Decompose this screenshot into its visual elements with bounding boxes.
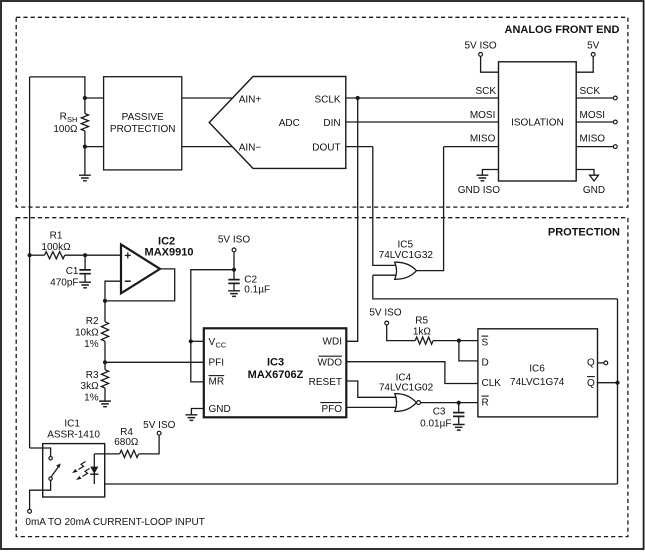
svg-text:74LVC1G32: 74LVC1G32 — [379, 250, 434, 261]
svg-text:PASSIVE: PASSIVE — [122, 112, 164, 123]
svg-text:10kΩ: 10kΩ — [75, 328, 99, 339]
svg-text:IC1: IC1 — [64, 419, 80, 430]
svg-text:C1: C1 — [66, 266, 79, 277]
svg-text:C3: C3 — [433, 406, 446, 417]
svg-text:CLK: CLK — [482, 378, 502, 389]
svg-text:ADC: ADC — [279, 118, 300, 129]
svg-text:PFI: PFI — [209, 358, 225, 369]
svg-text:680Ω: 680Ω — [114, 437, 139, 448]
svg-text:MOSI: MOSI — [580, 110, 606, 121]
svg-text:MISO: MISO — [470, 134, 496, 145]
svg-text:Q: Q — [587, 357, 595, 368]
svg-text:GND: GND — [583, 185, 605, 196]
svg-text:3kΩ: 3kΩ — [81, 381, 100, 392]
svg-text:100kΩ: 100kΩ — [41, 242, 71, 253]
svg-text:WDO: WDO — [318, 357, 343, 368]
svg-text:D: D — [482, 357, 489, 368]
svg-text:DIN: DIN — [323, 118, 340, 129]
svg-text:5V ISO: 5V ISO — [143, 420, 175, 431]
svg-text:470pF: 470pF — [50, 277, 78, 288]
svg-text:R: R — [482, 397, 489, 408]
svg-text:ANALOG FRONT END: ANALOG FRONT END — [505, 24, 620, 36]
svg-text:MOSI: MOSI — [470, 110, 496, 121]
svg-text:SCLK: SCLK — [314, 94, 340, 105]
svg-text:AIN−: AIN− — [239, 143, 262, 154]
svg-text:1%: 1% — [84, 392, 99, 403]
svg-text:S: S — [482, 337, 489, 348]
svg-text:Q: Q — [587, 378, 595, 389]
svg-text:V: V — [209, 337, 216, 348]
svg-text:1%: 1% — [84, 339, 99, 350]
svg-text:PFO: PFO — [321, 404, 342, 415]
svg-text:5V: 5V — [587, 41, 600, 52]
svg-text:DOUT: DOUT — [312, 143, 340, 154]
svg-text:MAX6706Z: MAX6706Z — [248, 369, 304, 381]
svg-text:0.01µF: 0.01µF — [420, 418, 451, 429]
svg-text:IC6: IC6 — [529, 363, 545, 374]
svg-text:5V ISO: 5V ISO — [369, 308, 401, 319]
svg-text:R1: R1 — [50, 231, 63, 242]
svg-text:MAX9910: MAX9910 — [145, 246, 194, 258]
svg-text:R5: R5 — [415, 316, 428, 327]
svg-text:MISO: MISO — [580, 134, 606, 145]
svg-text:CC: CC — [216, 340, 227, 349]
svg-text:74LVC1G74: 74LVC1G74 — [510, 377, 565, 388]
svg-text:SH: SH — [67, 115, 77, 124]
svg-text:GND ISO: GND ISO — [458, 185, 500, 196]
svg-text:WDI: WDI — [323, 337, 342, 348]
svg-text:MR: MR — [209, 377, 225, 388]
svg-text:100Ω: 100Ω — [53, 124, 78, 135]
svg-text:R2: R2 — [86, 316, 99, 327]
svg-text:R: R — [60, 112, 67, 123]
svg-text:74LVC1G02: 74LVC1G02 — [379, 383, 434, 394]
svg-text:R3: R3 — [86, 370, 99, 381]
svg-text:SCK: SCK — [475, 86, 496, 97]
svg-text:0.1µF: 0.1µF — [244, 285, 270, 296]
svg-text:ASSR-1410: ASSR-1410 — [47, 430, 100, 441]
svg-text:5V ISO: 5V ISO — [218, 234, 250, 245]
svg-text:PROTECTION: PROTECTION — [548, 227, 620, 239]
svg-text:5V ISO: 5V ISO — [464, 41, 496, 52]
svg-text:GND: GND — [209, 404, 231, 415]
svg-text:AIN+: AIN+ — [239, 94, 262, 105]
svg-text:SCK: SCK — [580, 86, 601, 97]
svg-text:0mA TO 20mA CURRENT-LOOP INPUT: 0mA TO 20mA CURRENT-LOOP INPUT — [25, 517, 205, 528]
svg-text:ISOLATION: ISOLATION — [511, 118, 564, 129]
svg-text:IC3: IC3 — [267, 357, 284, 369]
svg-text:RESET: RESET — [309, 377, 342, 388]
svg-text:PROTECTION: PROTECTION — [110, 124, 176, 135]
